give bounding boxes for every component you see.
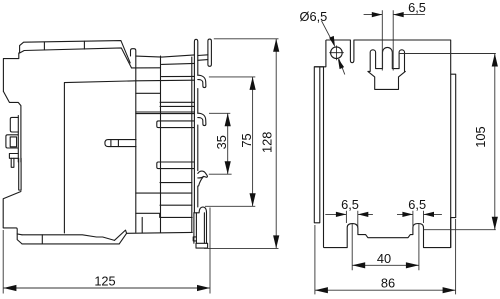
band line y182.6 bbox=[160, 182, 192, 184]
lower finger bar bbox=[157, 162, 194, 169]
mounting hole circle bbox=[331, 47, 343, 59]
front right wall lower bbox=[450, 74, 452, 247]
dim 75 ext top bbox=[209, 76, 255, 78]
bottom-left diagonal edge bbox=[3, 192, 22, 244]
foot box outer bbox=[194, 213, 207, 244]
band line y193 bbox=[136, 192, 192, 194]
dim 6.5 bottom-left tails and exts bbox=[325, 211, 373, 227]
band line y68 bbox=[132, 67, 161, 69]
arrow 105 bottom bbox=[492, 217, 498, 230]
dim 105 ext top bbox=[399, 53, 496, 55]
skirt tick bbox=[41, 235, 43, 244]
upper hook bbox=[198, 75, 206, 87]
dim 105 line bbox=[494, 54, 496, 230]
dim 40 ext lines bbox=[352, 224, 419, 270]
terminal capsule bar bbox=[208, 39, 212, 66]
arrow 86 left bbox=[315, 287, 328, 293]
top band tick 2 bbox=[83, 41, 85, 49]
dim 128 ext top bbox=[214, 38, 279, 40]
dim 105 ext bottom bbox=[424, 229, 496, 231]
skirt riser diagonal inner bbox=[119, 233, 126, 244]
arrow 125 right bbox=[197, 285, 210, 291]
foot dome top bbox=[194, 207, 207, 213]
terminal bridge bbox=[198, 55, 208, 61]
paddle tick 2 bbox=[117, 140, 119, 147]
din clip spring bar bbox=[19, 158, 21, 190]
arrow 105 top bbox=[492, 54, 498, 67]
din clip wall bbox=[17, 116, 19, 163]
dim 86 ext lines bbox=[315, 219, 456, 294]
svg-text:128: 128 bbox=[259, 132, 274, 153]
svg-text:125: 125 bbox=[94, 274, 115, 289]
svg-text:86: 86 bbox=[381, 276, 395, 291]
arrow 6.5 top left bbox=[372, 12, 383, 17]
band line y63 bbox=[162, 63, 195, 64]
band line y93 bbox=[136, 92, 160, 94]
side view left lower profile bbox=[3, 91, 21, 162]
beak hook bbox=[198, 171, 208, 186]
skirt bottom line bbox=[22, 243, 119, 245]
dim 40 line bbox=[352, 264, 419, 266]
dim 35 ext bottom bbox=[209, 173, 232, 175]
dim 128 line bbox=[275, 39, 277, 249]
paddle capsule bbox=[105, 140, 136, 147]
band line y107 bbox=[160, 105, 194, 107]
band line y113.6 bbox=[136, 113, 195, 115]
svg-text:35: 35 bbox=[214, 135, 229, 149]
band line y102 bbox=[160, 101, 194, 103]
side view top band lower edge bbox=[20, 48, 132, 68]
arrow leader lower bbox=[338, 58, 344, 69]
din clip lower step bbox=[9, 154, 18, 159]
arrow 75 bottom bbox=[250, 193, 256, 206]
svg-text:6,5: 6,5 bbox=[341, 197, 359, 212]
foot notch tab bbox=[193, 237, 196, 241]
dim 6.5 bottom-right tails and exts bbox=[397, 211, 442, 227]
dim 125 ext left bbox=[2, 230, 4, 294]
din clip lower prongs bbox=[11, 158, 14, 167]
arrow 128 bottom bbox=[273, 235, 279, 248]
svg-text:40: 40 bbox=[377, 251, 391, 266]
dim 75 line bbox=[252, 77, 254, 206]
dim 6.5 top ext lines bbox=[382, 10, 393, 70]
foot base slab bbox=[196, 243, 208, 248]
dim 35 line bbox=[227, 113, 229, 174]
dim 75 ext bottom bbox=[205, 205, 255, 207]
skirt upper ledge bbox=[22, 235, 115, 241]
svg-text:75: 75 bbox=[239, 133, 254, 147]
block lower tick bbox=[141, 217, 143, 233]
arrow 86 right bbox=[443, 287, 456, 293]
skirt riser diagonal outer bbox=[115, 230, 127, 240]
arrow 128 top bbox=[273, 39, 279, 52]
arrow 35 top bbox=[225, 113, 231, 126]
arrow leader upper bbox=[329, 36, 335, 47]
coil block right wall with top tab bbox=[131, 49, 136, 233]
din clip middle block bbox=[6, 135, 18, 148]
svg-text:Ø6,5: Ø6,5 bbox=[300, 9, 328, 24]
band line y205 bbox=[160, 204, 192, 206]
band line y112 bbox=[136, 111, 195, 113]
svg-text:105: 105 bbox=[473, 126, 488, 147]
side view top-left outline bbox=[3, 41, 130, 92]
column left edge bbox=[160, 56, 162, 232]
arrow 6.5 bl left bbox=[336, 212, 347, 217]
left cap inner chamfer bbox=[17, 233, 22, 236]
front view outline bbox=[314, 40, 455, 248]
top band tick 1 bbox=[43, 42, 45, 50]
dim 125 line bbox=[3, 287, 210, 289]
arrow 40 right bbox=[406, 262, 419, 268]
leader line lower bbox=[339, 59, 345, 74]
dim 128 ext bottom bbox=[204, 247, 279, 249]
keyhole crown bbox=[368, 47, 405, 89]
leader line upper bbox=[322, 21, 334, 45]
svg-text:6,5: 6,5 bbox=[408, 197, 426, 212]
din clip inner square bbox=[10, 137, 16, 147]
column right edge bbox=[191, 57, 193, 232]
skirt base edge right bbox=[127, 231, 193, 234]
circle crosshair bbox=[329, 46, 344, 61]
armature bar right edge segments bbox=[197, 89, 199, 114]
arrow 75 top bbox=[250, 77, 256, 90]
arrow 6.5 top right bbox=[393, 12, 404, 17]
band line y56 bbox=[136, 55, 195, 57]
arrow 6.5 br left bbox=[402, 212, 413, 217]
armature bar left edge bbox=[194, 39, 197, 212]
arrow 35 bottom bbox=[225, 161, 231, 174]
band line y77 bbox=[162, 75, 195, 77]
band line y213 step y217 bbox=[136, 213, 192, 217]
dim 6.5 top line tails bbox=[364, 14, 425, 16]
arrow 125 left bbox=[3, 285, 16, 291]
dim 125 ext right bbox=[209, 208, 211, 294]
beak fold line bbox=[198, 176, 204, 178]
svg-text:6,5: 6,5 bbox=[408, 0, 426, 15]
arrow 6.5 br right bbox=[424, 212, 435, 217]
dim 86 line bbox=[315, 289, 456, 291]
foot inner walls bbox=[196, 213, 204, 244]
coil block left edge bbox=[64, 80, 194, 233]
upper finger bar bbox=[157, 121, 194, 128]
dim 35 ext top bbox=[209, 112, 230, 114]
din clip upper tab bbox=[10, 117, 18, 132]
arrow 40 left bbox=[352, 262, 365, 268]
paddle tick 1 bbox=[110, 140, 112, 147]
arrow 6.5 bl right bbox=[358, 212, 369, 217]
front view left ear bottom step bbox=[314, 40, 326, 67]
lower hook bbox=[198, 113, 206, 125]
